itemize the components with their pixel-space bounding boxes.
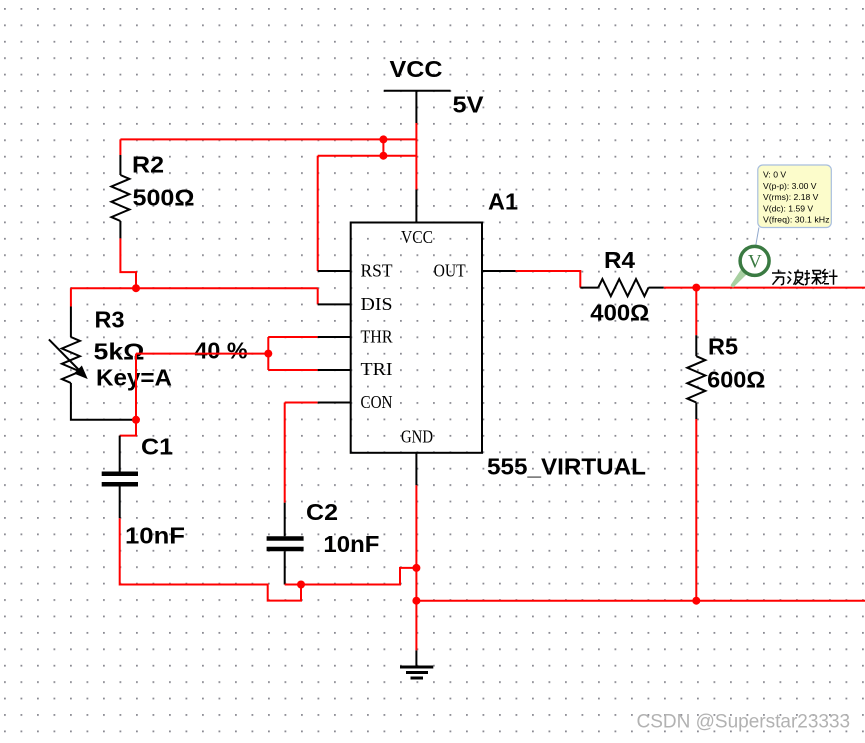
svg-text:GND: GND — [401, 427, 433, 447]
svg-text:VCC: VCC — [390, 56, 443, 82]
svg-text:Key=A: Key=A — [96, 364, 172, 390]
svg-text:CSDN @Superstar23333: CSDN @Superstar23333 — [637, 712, 851, 733]
svg-text:V(rms): 2.18 V: V(rms): 2.18 V — [763, 192, 819, 202]
wire C2 bottom net — [285, 568, 417, 585]
wire TRI — [268, 369, 317, 371]
wire wiper vertical — [135, 354, 137, 420]
svg-text:R2: R2 — [132, 152, 164, 178]
svg-text:RST: RST — [361, 261, 393, 281]
wire R3 top — [70, 288, 72, 306]
svg-text:C2: C2 — [306, 499, 338, 525]
wire CON vertical to C2 — [284, 403, 286, 503]
probe label fang bo tan zhen (CJK strokes) — [772, 269, 838, 285]
svg-text:R4: R4 — [604, 247, 635, 273]
wire TRI stub — [318, 369, 351, 371]
wire top horizontal to R2 — [120, 138, 416, 140]
svg-text:600Ω: 600Ω — [707, 367, 765, 393]
svg-text:10nF: 10nF — [125, 523, 185, 549]
svg-text:C1: C1 — [141, 434, 173, 460]
svg-text:DIS: DIS — [361, 294, 393, 314]
node R5 bottom junction — [692, 597, 700, 605]
node GND wire junction upper — [412, 564, 420, 572]
svg-text:V: 0 V: V: 0 V — [763, 170, 786, 180]
wire DIS stub — [318, 303, 351, 305]
node GND bus junction — [412, 597, 420, 605]
node C1/C2 junction — [297, 581, 305, 589]
probe measurement box — [756, 165, 832, 246]
wire OUT red — [516, 271, 581, 288]
wire THR/TRI vertical — [267, 337, 269, 370]
resistor R5 — [687, 334, 765, 420]
svg-text:40 %: 40 % — [195, 338, 248, 364]
wire R5 top — [695, 288, 697, 336]
capacitor C1 — [102, 434, 185, 549]
svg-text:V(p-p): 3.00 V: V(p-p): 3.00 V — [763, 181, 817, 191]
svg-text:5V: 5V — [453, 92, 485, 118]
resistor R2 — [111, 139, 194, 238]
wire R3 to C1 — [120, 420, 136, 436]
node THR/TRI junction — [264, 350, 272, 358]
wire R5 bottom — [695, 419, 697, 601]
wire THR — [268, 336, 317, 338]
node junction R2/R3 — [132, 284, 140, 292]
wire wiper net — [136, 353, 268, 355]
svg-text:A1: A1 — [488, 189, 518, 215]
ground — [400, 650, 433, 678]
probe V symbol — [731, 246, 770, 287]
wire horizontal DIS net — [71, 287, 318, 289]
svg-text:V: V — [748, 252, 762, 273]
capacitor C2 — [267, 499, 380, 585]
node top junction 1 — [379, 135, 387, 143]
VCC power symbol — [384, 56, 484, 123]
wire RST horizontal — [318, 155, 417, 157]
svg-text:THR: THR — [361, 327, 393, 347]
svg-text:R3: R3 — [95, 307, 125, 333]
wire bottom bus — [416, 600, 865, 602]
resistor R4 — [580, 247, 664, 326]
wire VCC pin black — [415, 190, 417, 223]
node R4/R5 junction — [692, 284, 700, 292]
wire OUT stub — [482, 270, 516, 272]
svg-text:400Ω: 400Ω — [590, 300, 649, 326]
wire junction link — [382, 139, 384, 155]
wire DIS vertical — [317, 288, 319, 304]
svg-text:OUT: OUT — [434, 261, 466, 281]
wire RST stub — [318, 270, 351, 272]
node top junction 2 — [379, 152, 387, 160]
wire R2 bottom — [120, 238, 136, 288]
svg-text:V(dc): 1.59 V: V(dc): 1.59 V — [763, 203, 813, 213]
wire RST vertical — [317, 156, 319, 271]
svg-text:10nF: 10nF — [323, 531, 379, 557]
wire GND vertical red — [415, 485, 417, 650]
wire C1 bottom — [120, 518, 301, 600]
node R3 bottom junction — [132, 416, 140, 424]
svg-text:CON: CON — [361, 392, 393, 412]
wire R4 to probe — [664, 287, 865, 289]
potentiometer R3 — [49, 307, 172, 420]
svg-text:TRI: TRI — [361, 359, 393, 379]
wire CON stub — [318, 402, 351, 404]
wire THR stub — [318, 336, 351, 338]
wire CON — [285, 402, 318, 404]
wire GND pin black — [415, 453, 417, 486]
svg-text:V(freq): 30.1 kHz: V(freq): 30.1 kHz — [763, 215, 830, 225]
svg-text:555_VIRTUAL: 555_VIRTUAL — [487, 454, 646, 480]
op-amp U1 IC 555 box — [351, 189, 646, 480]
svg-text:500Ω: 500Ω — [133, 185, 195, 211]
svg-text:R5: R5 — [708, 334, 738, 360]
wire VCC vertical red — [415, 123, 417, 190]
svg-text:VCC: VCC — [401, 227, 433, 247]
